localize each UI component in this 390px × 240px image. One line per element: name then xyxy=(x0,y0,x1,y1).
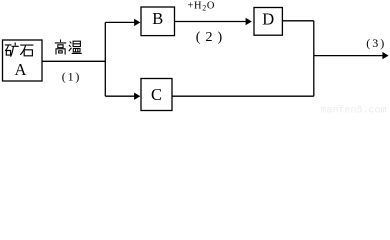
box D xyxy=(254,8,282,36)
box C xyxy=(141,79,172,111)
svg-text:(2): (2) xyxy=(196,30,227,45)
wire D to right vertical xyxy=(282,20,313,22)
arrowhead into B xyxy=(134,19,140,26)
arrowhead into C xyxy=(134,93,140,100)
wire C to right vertical xyxy=(172,95,314,97)
svg-text:B: B xyxy=(152,9,163,28)
output wire (3) xyxy=(314,55,384,57)
label 石 (hand-drawn glyph) xyxy=(21,45,33,56)
arrowhead into D xyxy=(246,18,252,25)
wire to B xyxy=(105,21,135,23)
output arrowhead xyxy=(382,52,388,59)
right vertical wire xyxy=(313,21,315,96)
label 矿 (hand-drawn glyph) xyxy=(5,43,18,56)
svg-text:(3): (3) xyxy=(366,36,386,50)
svg-text:manfen5.com: manfen5.com xyxy=(321,105,387,115)
box B xyxy=(141,7,175,36)
svg-text:+H2O: +H2O xyxy=(188,0,216,12)
box A (ore) xyxy=(3,40,43,81)
label 高 (hand-drawn glyph) xyxy=(55,40,66,54)
wire to C xyxy=(105,95,135,97)
wire A to branch point xyxy=(42,60,105,62)
svg-text:D: D xyxy=(262,9,274,28)
svg-text:(1): (1) xyxy=(62,69,81,83)
wire B to D xyxy=(175,21,247,23)
svg-text:C: C xyxy=(151,85,162,104)
label 温 (hand-drawn glyph) xyxy=(69,41,81,53)
svg-text:A: A xyxy=(15,60,27,79)
branch vertical wire xyxy=(104,22,106,96)
